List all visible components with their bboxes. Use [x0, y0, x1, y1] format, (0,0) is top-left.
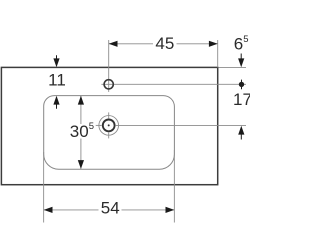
dimension 305 up arrow	[78, 96, 84, 105]
dimension 45 line right segment	[177, 43, 218, 45]
dimension 17 arrow tail	[240, 133, 242, 140]
tap hole leader line	[116, 124, 246, 126]
dimension 45 right arrow	[209, 41, 218, 47]
dimension 11 down arrow	[53, 58, 59, 67]
extension line right for dim 54	[173, 150, 175, 223]
dimension 17 dot stub	[241, 80, 243, 90]
tap hole center dot	[108, 124, 110, 126]
dimension 11 arrow tail bottom	[56, 103, 58, 109]
tap hole crosshair tick left	[96, 124, 102, 126]
svg-text:11: 11	[48, 70, 66, 89]
dimension 11 arrow tail top	[56, 55, 58, 60]
extension line top edge to right margin	[219, 66, 247, 68]
dimension 65 down arrow	[238, 58, 244, 67]
dimension 54 line right segment	[122, 209, 175, 211]
extension line left for dim 54	[43, 152, 45, 223]
tap hole crosshair tick top	[108, 112, 110, 118]
dimension 54 right arrow	[166, 207, 175, 213]
dimension 305 line top segment	[80, 96, 82, 124]
overflow hole leader line	[101, 83, 246, 85]
svg-text:17: 17	[233, 90, 250, 109]
inner basin rounded outline	[44, 96, 175, 170]
tap hole crosshair tick bottom	[108, 132, 110, 138]
dimension 45 line left segment	[109, 43, 153, 45]
dimension 11 up arrow	[53, 96, 59, 105]
extension line tap hole vertical	[108, 40, 110, 92]
tap hole dark circle	[103, 120, 115, 132]
dimension 65 arrow tail	[240, 54, 242, 61]
outer washbasin outline	[1, 67, 217, 184]
dimension 17 up arrow	[238, 126, 244, 135]
dimension 305 line bottom segment	[80, 139, 82, 169]
dimension 54 left arrow	[44, 207, 53, 213]
dimension 17 dot marker	[239, 82, 244, 87]
overflow hole circle	[104, 80, 113, 89]
dimension 45 left arrow	[109, 41, 118, 47]
dimension 54 line left segment	[44, 209, 99, 211]
dimension 305 down arrow	[78, 160, 84, 169]
svg-text:45: 45	[155, 34, 174, 53]
extension line outer right top	[217, 40, 219, 67]
svg-text:54: 54	[101, 199, 120, 218]
tap hole outer thin circle	[99, 116, 119, 136]
